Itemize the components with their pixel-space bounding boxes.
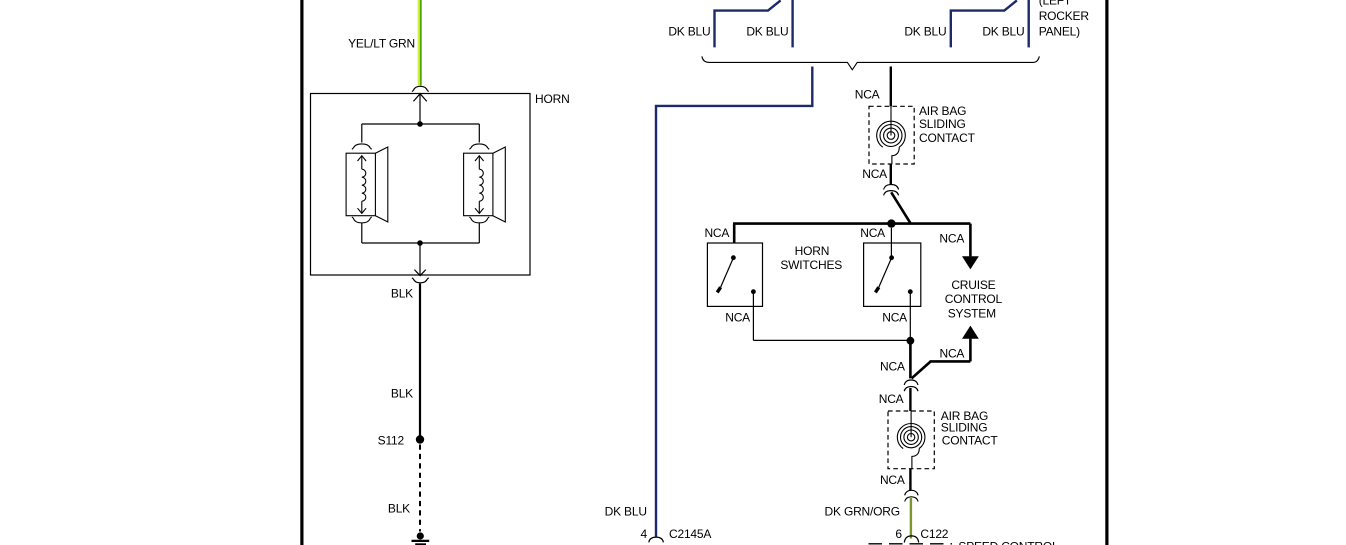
wire connector to junction (diagonal): [891, 192, 911, 223]
svg-text:NCA: NCA: [860, 226, 885, 240]
left horn element arc bottom: [352, 217, 372, 223]
svg-text:NCA: NCA: [704, 226, 729, 240]
wire left coil to bottom bus: [361, 223, 363, 243]
horn switch left (switch blade): [717, 255, 756, 294]
wire DK BLU from brace to C2145A: [656, 67, 812, 537]
air bag sliding contact 1 spiral: [877, 106, 906, 164]
svg-text:HORN: HORN: [795, 244, 830, 258]
svg-text:SPEED CONTROL: SPEED CONTROL: [958, 540, 1059, 545]
ground G112: [412, 532, 430, 544]
svg-text:NCA: NCA: [882, 311, 907, 325]
right horn element arc top: [469, 144, 489, 149]
label AIR BAG SLIDING CONTACT 2: [941, 409, 999, 447]
svg-text:NCA: NCA: [855, 88, 880, 102]
svg-text:CRUISE: CRUISE: [951, 278, 995, 292]
junction node top bus: [417, 121, 423, 127]
svg-text:DK GRN/ORG: DK GRN/ORG: [825, 505, 900, 519]
svg-text:AIR BAG: AIR BAG: [919, 104, 966, 118]
horn switch right box: [864, 243, 921, 306]
svg-text:SLIDING: SLIDING: [919, 117, 966, 131]
horn internal top bus wire: [362, 123, 480, 125]
svg-text:SWITCHES: SWITCHES: [780, 258, 842, 272]
wire BLK from horn to splice: [419, 284, 421, 440]
svg-text:PANEL): PANEL): [1039, 25, 1080, 39]
wire connector to contact 2: [909, 388, 911, 411]
wire feed to cruise control (down arrow): [962, 224, 979, 270]
wire NCA from brace to sliding contact 1: [890, 67, 892, 107]
junction node switch feed: [887, 219, 895, 227]
svg-text:BLK: BLK: [388, 501, 410, 515]
wire horn switch feed bus: [733, 222, 970, 225]
svg-text:DK BLU: DK BLU: [605, 505, 647, 519]
right horn element (coil + diaphragm): [464, 147, 506, 222]
svg-text:CONTACT: CONTACT: [942, 433, 999, 447]
wire switch outputs joined: [753, 339, 910, 341]
right page border: [1105, 0, 1108, 545]
svg-text:S112: S112: [378, 433, 405, 447]
svg-text:DK BLU: DK BLU: [904, 25, 946, 39]
wire bottom bus to horn case exit: [414, 243, 425, 276]
wire feed drop to left switch: [733, 224, 736, 243]
horn switch left box: [707, 243, 762, 306]
wire DK BLU drop 3: [951, 0, 1017, 47]
horn switch right (switch blade): [875, 255, 912, 294]
wire right switch output: [909, 292, 911, 341]
inline connector C122 top half: [905, 490, 918, 501]
svg-text:DK BLU: DK BLU: [746, 25, 788, 39]
svg-text:BLK: BLK: [391, 387, 413, 401]
wire contact 1 to connector: [890, 164, 892, 184]
air bag sliding contact 1 (dashed box): [869, 106, 914, 164]
wire DK BLU drop 1: [715, 0, 781, 47]
air bag sliding contact 2 (dashed box): [888, 411, 934, 469]
left horn element (coil + diaphragm): [346, 147, 388, 222]
label (LEFT ROCKER PANEL): [1039, 0, 1090, 39]
svg-text:DK BLU: DK BLU: [668, 25, 710, 39]
wire DK GRN/ORG: [910, 498, 912, 539]
wire junction to right switch: [890, 228, 892, 258]
svg-text:CONTROL: CONTROL: [945, 292, 1003, 306]
wire to left horn coil: [361, 124, 363, 143]
right horn element arc bottom: [469, 217, 489, 223]
label HORN SWITCHES: [780, 244, 842, 272]
speed control box top edge (dashed): [869, 543, 953, 545]
svg-text:NCA: NCA: [880, 360, 905, 374]
svg-text:YEL/LT GRN: YEL/LT GRN: [348, 36, 415, 50]
svg-text:BLK: BLK: [391, 287, 413, 301]
connector C122 socket arc: [904, 536, 918, 543]
connector at horn top (male arrow): [413, 94, 426, 124]
horn component box: [311, 94, 531, 276]
svg-text:NCA: NCA: [940, 346, 965, 360]
label CRUISE CONTROL SYSTEM: [945, 278, 1003, 321]
svg-text:(LEFT: (LEFT: [1039, 0, 1072, 7]
junction node bottom bus: [417, 240, 423, 246]
svg-text:DK BLU: DK BLU: [982, 25, 1024, 39]
svg-text:HORN: HORN: [535, 92, 570, 106]
air bag sliding contact 2 spiral: [897, 411, 925, 469]
brace joining DK BLU wires: [702, 56, 1040, 69]
wire contact 2 to connector 3: [909, 469, 911, 491]
splice S112: [416, 435, 424, 443]
svg-text:ROCKER: ROCKER: [1039, 9, 1090, 23]
svg-text:NCA: NCA: [862, 167, 887, 181]
svg-text:C122: C122: [920, 527, 948, 541]
left page border: [300, 0, 303, 545]
wire branch to cruise control (up arrow): [912, 326, 979, 379]
wire junction to connector 2: [909, 341, 912, 379]
inline connector (contact 1 to switches): [884, 185, 899, 196]
svg-text:NCA: NCA: [939, 231, 964, 245]
junction node switch output: [907, 337, 915, 345]
left horn element arc top: [352, 144, 372, 149]
connector at horn bottom (female arc): [412, 278, 429, 283]
horn internal bottom bus wire: [362, 242, 480, 244]
svg-text:NCA: NCA: [725, 311, 750, 325]
svg-text:6: 6: [895, 527, 902, 541]
wire DK BLU drop 2: [791, 0, 793, 47]
svg-text:C2145A: C2145A: [669, 527, 711, 541]
svg-text:NCA: NCA: [880, 473, 905, 487]
wire left switch output: [752, 292, 754, 341]
svg-text:4: 4: [641, 527, 648, 541]
inline connector (switches to contact 2): [904, 380, 918, 391]
label AIR BAG SLIDING CONTACT 1: [919, 104, 976, 145]
connector C2145A socket arc: [649, 537, 664, 542]
svg-text:NCA: NCA: [879, 392, 904, 406]
wire right coil to bottom bus: [478, 223, 480, 243]
wire BLK dashed to ground: [419, 445, 421, 532]
svg-text:CONTACT: CONTACT: [919, 131, 976, 145]
wire DK BLU drop 4: [1027, 0, 1029, 47]
svg-text:SYSTEM: SYSTEM: [948, 306, 996, 320]
wire YEL/LT GRN (to horn): [418, 0, 422, 86]
connector at horn top (female arc): [412, 86, 429, 91]
wire to right horn coil: [478, 124, 480, 143]
